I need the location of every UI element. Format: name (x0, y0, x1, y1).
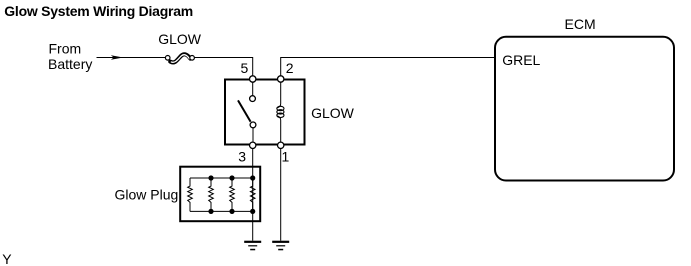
glow plug resistor 3 (230, 178, 235, 211)
svg-text:Glow Plug: Glow Plug (115, 187, 179, 203)
svg-text:Glow System Wiring Diagram: Glow System Wiring Diagram (4, 3, 193, 19)
pin 1 (278, 142, 284, 148)
relay switch (238, 79, 256, 145)
pin 5 (250, 76, 256, 82)
glow plug box (180, 167, 260, 222)
pin 3 (250, 142, 256, 148)
label From Battery (48, 40, 92, 72)
top rail (190, 177, 253, 179)
glow plug resistor 2 (209, 178, 214, 211)
wire pin 1 to ground (280, 145, 282, 241)
glow plug resistor 1 (188, 178, 193, 211)
arrow (111, 55, 123, 59)
ECM box (495, 37, 674, 181)
fuse GLOW (165, 54, 194, 62)
svg-text:5: 5 (241, 60, 249, 76)
svg-text:GLOW: GLOW (311, 105, 355, 121)
ground 1 (244, 241, 261, 251)
glow plug resistor 4 (250, 178, 255, 211)
wire from battery (97, 57, 166, 59)
svg-text:GLOW: GLOW (158, 31, 202, 47)
junction dots bottom rail (208, 209, 255, 214)
svg-text:GREL: GREL (502, 52, 540, 68)
junction dots top rail (208, 175, 255, 180)
svg-text:Y: Y (2, 251, 12, 266)
bottom rail (190, 210, 253, 212)
wire pin 2 to ECM GREL (281, 58, 495, 80)
svg-text:3: 3 (238, 149, 246, 165)
svg-text:From: From (49, 40, 82, 56)
svg-text:Battery: Battery (48, 56, 92, 72)
svg-text:2: 2 (286, 60, 294, 76)
ground 2 (272, 241, 289, 251)
pin 2 (278, 76, 284, 82)
relay coil (277, 79, 284, 145)
svg-text:ECM: ECM (565, 16, 596, 32)
wire fuse to pin 5 (194, 58, 252, 80)
wire pin 3 to ground (252, 145, 254, 241)
relay box (225, 80, 305, 145)
svg-text:1: 1 (282, 149, 290, 165)
